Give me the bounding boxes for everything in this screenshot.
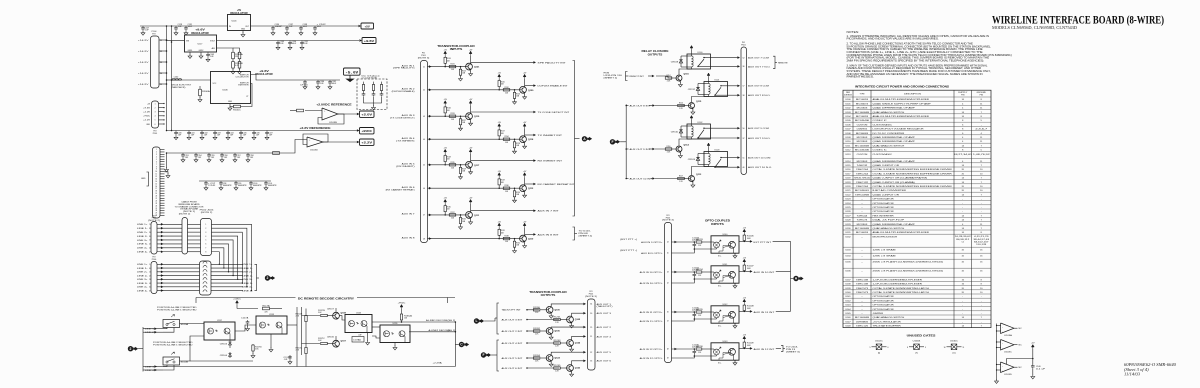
svg-text:+2.2V: +2.2V <box>361 141 372 145</box>
svg-text:L: L <box>475 319 477 323</box>
ground lower R row 1 <box>460 75 462 77</box>
svg-text:U141: U141 <box>845 296 851 298</box>
dashed box T100 ref network <box>357 79 387 110</box>
resistor lower R row 2 <box>514 90 516 93</box>
svg-text:ANALOG MULTIPLEXER/DEMULTIPLEX: ANALOG MULTIPLEXER/DEMULTIPLEXER <box>873 115 930 118</box>
wire relay contacts to connector K101 <box>728 85 739 87</box>
svg-text:QUAD ANALOG SWITCH: QUAD ANALOG SWITCH <box>873 316 905 319</box>
capacitor C136 <box>271 26 275 31</box>
capacitor C117AA <box>352 337 364 343</box>
svg-text:9: 9 <box>156 169 157 171</box>
bracket dc remote lines <box>138 348 143 350</box>
wire unused opamp bus <box>996 324 998 380</box>
supply relay K103 <box>707 143 710 148</box>
svg-text:U103A: U103A <box>1004 334 1013 337</box>
supply +5V collector row 3 <box>469 101 472 106</box>
ground C128 <box>174 31 178 35</box>
svg-text:AUX OUT 8 N.O.: AUX OUT 8 N.O. <box>748 94 771 97</box>
wire S100B to U133 lower <box>190 360 253 362</box>
capacitor C131 <box>184 26 188 31</box>
supply relay K100 <box>690 46 693 51</box>
svg-text:P/O: P/O <box>152 34 156 36</box>
svg-text:.1UF: .1UF <box>230 134 234 136</box>
pin stub J300 pin 16 <box>160 185 165 187</box>
svg-text:27: 27 <box>155 213 157 215</box>
pin stub J300 pin 3 <box>160 153 165 155</box>
svg-text:26: 26 <box>155 210 157 212</box>
svg-text:AUX OUT 7 N.O.: AUX OUT 7 N.O. <box>748 65 771 68</box>
svg-text:Q105: Q105 <box>575 319 581 321</box>
wire opto- row 4 <box>672 356 712 358</box>
svg-text:20: 20 <box>149 236 151 238</box>
svg-text:R1203: R1203 <box>554 340 561 342</box>
pin stub J300 pin 28 <box>160 214 165 216</box>
wire dc remote out 2 <box>409 331 455 333</box>
resistor base Q105 <box>554 318 561 320</box>
wire opto- row 1 <box>672 249 712 253</box>
offpage flag C <box>459 342 464 347</box>
svg-text:ANALOG MULTIPLEXER/DEMULTIPLEX: ANALOG MULTIPLEXER/DEMULTIPLEXER <box>873 231 930 234</box>
svg-text:PARENTHESES.: PARENTHESES. <box>847 76 875 79</box>
pin stub J300 pin 25 <box>160 207 165 209</box>
svg-text:QUAD DIFFERENTIAL OP AMP: QUAD DIFFERENTIAL OP AMP <box>873 223 916 226</box>
wire P103 pin 5 <box>159 119 165 121</box>
svg-text:WIRELINE INTERFACE BOARD (8-WI: WIRELINE INTERFACE BOARD (8-WIRE) <box>992 13 1164 27</box>
switching regulator U106 <box>211 72 251 104</box>
svg-text:U100: U100 <box>845 99 851 101</box>
svg-text:Q121: Q121 <box>474 67 480 69</box>
svg-text:DESIG: DESIG <box>844 94 852 96</box>
svg-text:R1235: R1235 <box>696 309 703 311</box>
svg-text:U102: U102 <box>845 108 851 110</box>
ground emitter Q105 <box>571 323 573 324</box>
capacitor C161 on ref line <box>194 153 198 158</box>
svg-text:+14.2V: +14.2V <box>138 73 149 75</box>
svg-text:R117A: R117A <box>262 305 270 308</box>
ground emitter row 6 <box>524 192 526 194</box>
wire U137 to U133 <box>235 325 256 331</box>
svg-text:AUX IN 12 INT: AUX IN 12 INT <box>754 348 776 351</box>
svg-text:.1UF: .1UF <box>178 134 182 136</box>
resistor base R row 8 <box>503 237 510 239</box>
wire output U141 <box>739 270 751 272</box>
switch S100B <box>163 357 180 365</box>
capacitor C160 on ref line <box>181 153 185 158</box>
svg-text:23: 23 <box>155 203 157 205</box>
wire input row 1 <box>428 66 466 68</box>
wire output row 2 <box>525 85 534 87</box>
svg-text:5: 5 <box>205 240 206 242</box>
resistor base R row 5 <box>449 164 456 166</box>
svg-text:5: 5 <box>156 159 157 161</box>
transistor Q113 <box>689 176 695 182</box>
arrow into +9.6V net label <box>359 39 362 42</box>
svg-text:52: 52 <box>743 57 745 59</box>
svg-text:DUAL J-K FLIP-FLOP: DUAL J-K FLIP-FLOP <box>873 219 906 222</box>
wire to Q107 <box>302 343 321 345</box>
pin stub J300 pin 18 <box>160 190 165 192</box>
supply relay K101 <box>707 73 710 78</box>
inductor L102 <box>172 79 182 81</box>
svg-text:49: 49 <box>667 358 669 360</box>
svg-text:JUMPER: JUMPER <box>873 313 884 315</box>
svg-text:P100: P100 <box>152 259 156 261</box>
bracket line group <box>255 264 257 290</box>
wire P104 pin 4 to +14V bus <box>159 72 167 74</box>
svg-text:PICOFARADS, AND INDUCTOR VALUE: PICOFARADS, AND INDUCTOR VALUES ARE IN M… <box>847 38 940 41</box>
wire +14V feed to +5V regulator <box>167 25 228 27</box>
optocoupler U143 <box>711 343 739 360</box>
pin stub J300 pin 4 <box>160 156 165 158</box>
wire input row 3 <box>428 115 466 117</box>
svg-text:LM78M05: LM78M05 <box>856 321 869 323</box>
svg-text:48: 48 <box>667 349 669 351</box>
svg-text:74HC32,74HC132: 74HC32,74HC132 <box>854 178 871 180</box>
voltage regulator U117 (+9.6V REGULATOR) <box>185 35 217 52</box>
resistor pullup R row 1 <box>444 56 446 58</box>
svg-text:(SPE FACILITY): (SPE FACILITY) <box>393 67 415 70</box>
capacitor C164 <box>372 92 376 97</box>
svg-text:U113: U113 <box>845 154 851 156</box>
svg-text:74HC32: 74HC32 <box>857 165 869 167</box>
svg-text:AUX OUT 9 N.O.: AUX OUT 9 N.O. <box>748 137 771 140</box>
svg-text:A-LINE1 DECODE: A-LINE1 DECODE <box>426 319 448 322</box>
svg-text:2: 2 <box>267 276 269 280</box>
svg-text:U128: U128 <box>845 220 851 222</box>
capacitor C163 <box>362 92 366 97</box>
svg-text:NC: NC <box>1019 328 1023 330</box>
svg-text:.1UF: .1UF <box>198 157 202 159</box>
capacitor C97 2.2UF <box>204 181 208 186</box>
wire P103 pin 2 <box>159 107 165 109</box>
svg-text:Q125: Q125 <box>575 343 581 345</box>
wire +2.2V ref input line <box>167 140 308 154</box>
svg-text:R134: R134 <box>504 136 508 138</box>
relay K102 <box>687 124 711 139</box>
svg-text:Q119: Q119 <box>474 116 480 118</box>
svg-text:Q100: Q100 <box>554 309 560 311</box>
svg-text:LINE 1+: LINE 1+ <box>137 264 149 266</box>
svg-text:THE ORANGE CONNECTOR IS CABLED: THE ORANGE CONNECTOR IS CABLED TO THE WI… <box>847 48 984 51</box>
wire U103D feedback <box>303 134 328 145</box>
svg-text:U121: U121 <box>845 190 851 192</box>
svg-text:CUSTOM: CUSTOM <box>857 154 868 156</box>
svg-text:30: 30 <box>590 313 592 315</box>
svg-text:11: 11 <box>156 174 158 176</box>
ground Q116 <box>679 81 681 83</box>
svg-text:3: 3 <box>156 154 157 156</box>
svg-text:OCTAL 3-STATE NONINVERTING LAT: OCTAL 3-STATE NONINVERTING LATCH <box>873 291 930 294</box>
svg-text:QUAD DIFFERENTIAL OP AMP: QUAD DIFFERENTIAL OP AMP <box>873 140 916 143</box>
wire collector Q125 to pin 31 <box>572 336 584 339</box>
svg-text:51: 51 <box>743 157 745 159</box>
ground U106 <box>229 104 231 107</box>
net label +9.6V <box>362 38 376 44</box>
svg-text:25: 25 <box>155 208 157 210</box>
wire U103D output <box>323 141 358 143</box>
connector P502 (oval) <box>182 218 188 255</box>
svg-text:AUX OUT 5: AUX OUT 5 <box>597 351 613 354</box>
svg-text:LINE 1+: LINE 1+ <box>137 224 149 226</box>
supply +5V pullup U143 <box>743 336 746 341</box>
supply +5V row 8 <box>498 223 501 228</box>
svg-text:OPTOISOLATOR: OPTOISOLATOR <box>873 304 895 307</box>
svg-text:AUX OUT 10 COM: AUX OUT 10 COM <box>748 157 771 160</box>
transistor Q107 <box>333 340 340 347</box>
svg-text:CUSTOM ASIC: CUSTOM ASIC <box>873 153 893 156</box>
svg-text:RELAY CLOSURE: RELAY CLOSURE <box>642 49 669 53</box>
offpage flag 2 (dc remote) <box>128 346 133 351</box>
ground U117 gnd2 <box>200 52 202 55</box>
bracket aux in 8 <box>573 227 575 240</box>
svg-text:(SH 2): (SH 2) <box>448 330 456 332</box>
svg-text:U130C: U130C <box>950 341 958 343</box>
svg-text:(SHEET 2): (SHEET 2) <box>579 235 593 237</box>
svg-text:AUX OUT 2 INT: AUX OUT 2 INT <box>502 330 524 333</box>
wire T100 bottom rail <box>364 97 382 103</box>
ground emitter row 2 <box>524 93 526 95</box>
bracket outputs group2 <box>497 340 499 371</box>
svg-text:P101: P101 <box>153 133 157 135</box>
pin stub J300 pin 14 <box>160 180 165 182</box>
pin stub J300 pin 24 <box>160 205 165 207</box>
svg-text:F: F <box>611 140 613 144</box>
svg-text:LINE 4+: LINE 4+ <box>137 248 149 250</box>
svg-text:CR106: CR106 <box>327 337 334 339</box>
svg-text:U102C: U102C <box>875 341 883 343</box>
svg-text:MC3303: MC3303 <box>857 141 869 143</box>
wire U103B feedback <box>318 114 344 124</box>
svg-text:45: 45 <box>423 165 425 167</box>
svg-text:R1233: R1233 <box>696 239 703 241</box>
connector P103 (small, mid-left) <box>152 101 159 128</box>
svg-text:MC3303: MC3303 <box>857 161 869 163</box>
svg-text:(NOTE 3): (NOTE 3) <box>585 296 597 298</box>
capacitor C165 on ref line <box>246 153 250 158</box>
svg-text:OCTAL 3-STATE NONINVERTING BUF: OCTAL 3-STATE NONINVERTING BUFFER/LINE D… <box>873 168 953 171</box>
transistor Q115 <box>689 103 695 109</box>
arrow into +9VDC label <box>357 129 360 132</box>
pin stub J300 pin 5 <box>160 158 165 160</box>
svg-text:MC3303: MC3303 <box>857 137 869 139</box>
wire input row 4 <box>428 138 520 140</box>
bracket inputs outputs <box>573 61 575 217</box>
svg-text:11: 11 <box>963 347 965 349</box>
svg-text:U111B: U111B <box>913 341 922 343</box>
svg-text:LINE 4+: LINE 4+ <box>242 287 254 289</box>
svg-text:ADJ: ADJ <box>212 47 215 50</box>
svg-text:U147: U147 <box>845 321 851 323</box>
ground emitter row 4 <box>524 143 526 145</box>
svg-text:R131: R131 <box>450 64 454 66</box>
resistor R117A <box>237 308 258 310</box>
wire crossover line 1 <box>212 224 252 290</box>
svg-text:19: 19 <box>155 193 157 195</box>
wire opto+ row 3 <box>672 311 696 313</box>
svg-text:NC: NC <box>1019 345 1023 347</box>
svg-text:8: 8 <box>156 166 157 168</box>
ground U117 gnd1 <box>189 52 191 55</box>
svg-text:MC145406: MC145406 <box>855 150 870 152</box>
resistor pullup R row 7 <box>444 204 446 206</box>
svg-text:6800PF: 6800PF <box>238 185 248 187</box>
capacitor C101 6800PF <box>264 181 268 186</box>
diode CR109 <box>697 154 699 165</box>
svg-text:R100A: R100A <box>202 90 211 93</box>
svg-text:74HC74: 74HC74 <box>857 220 869 222</box>
svg-text:U132: U132 <box>845 236 851 238</box>
svg-text:R1234: R1234 <box>696 269 703 271</box>
resistor lower R row 4 <box>514 139 516 142</box>
svg-text:R1201: R1201 <box>554 317 561 319</box>
resistor R161A2 <box>400 314 402 320</box>
svg-text:.1UF: .1UF <box>191 134 195 136</box>
wire opto+ row 2 <box>672 271 696 273</box>
ground J300 area <box>165 172 169 174</box>
wire coil to Q115 <box>692 95 709 103</box>
resistor pullup R row 5 <box>444 154 446 156</box>
transistor Q116 <box>676 75 682 81</box>
ground U140 emitter <box>734 253 736 254</box>
svg-text:13: 13 <box>155 178 157 180</box>
svg-text:Q124: Q124 <box>554 357 560 360</box>
resistor base Q106 <box>533 330 540 332</box>
svg-text:Q120: Q120 <box>528 90 534 92</box>
diode CR103 <box>229 340 231 348</box>
svg-text:AUX OUT 3: AUX OUT 3 <box>597 312 613 315</box>
svg-text:U106: U106 <box>845 124 851 126</box>
diode CR112 <box>697 84 699 95</box>
capacitor C1233 across inputs <box>693 350 697 355</box>
svg-text:OPTOISOLATOR: OPTOISOLATOR <box>873 198 895 201</box>
svg-text:TRI-STATE BUFFER: TRI-STATE BUFFER <box>873 325 902 328</box>
svg-text:MICROPROCESSOR: MICROPROCESSOR <box>873 236 898 238</box>
wire output row 5 <box>471 160 534 162</box>
svg-text:LINE 3+: LINE 3+ <box>242 279 254 281</box>
svg-text:AND MAY BE RE-ASSIGNED AS NECE: AND MAY BE RE-ASSIGNED AS NECESSARY. THE… <box>847 73 984 76</box>
supply +5V collector row 2 <box>523 74 526 79</box>
wire P104 pin 5 to +14V bus <box>159 83 167 85</box>
svg-text:AUX OUT 9 COM: AUX OUT 9 COM <box>748 127 769 130</box>
svg-text:AUX IN 10 OPTO-: AUX IN 10 OPTO- <box>640 282 663 285</box>
svg-text:256K x 8 FLASH (CLN6956/CLN695: 256K x 8 FLASH (CLN6956/CLN6958/CLN7543) <box>873 269 944 272</box>
transistor Q118 <box>520 136 527 143</box>
op-amp U103B <box>322 108 338 120</box>
svg-text:OUTPUTS: OUTPUTS <box>541 293 556 297</box>
svg-text:REGULATOR: REGULATOR <box>230 12 248 15</box>
supply +5V row 5 <box>444 149 447 154</box>
ground C131 <box>184 31 188 35</box>
svg-text:74HC138: 74HC138 <box>856 284 869 286</box>
svg-text:31: 31 <box>590 336 592 338</box>
ground R116B <box>232 68 234 70</box>
connector P501 opto <box>665 223 672 363</box>
svg-text:MC14053: MC14053 <box>856 99 869 101</box>
svg-text:U144: U144 <box>845 309 851 311</box>
supply +5V row 1 <box>444 51 447 56</box>
svg-text:HEX INVERTER: HEX INVERTER <box>873 215 895 217</box>
relay K100 <box>687 54 711 69</box>
diode CR110 <box>680 126 682 137</box>
svg-text:GND: GND <box>241 29 246 31</box>
pin stub J300 pin 15 <box>160 183 165 185</box>
svg-text:74HC244: 74HC244 <box>856 186 869 188</box>
svg-text:REGULATOR: REGULATOR <box>255 73 273 76</box>
svg-text:REMOT INT: REMOT INT <box>630 76 645 78</box>
wire crossover line 6 <box>212 244 229 272</box>
svg-text:U112: U112 <box>845 150 851 152</box>
svg-text:42: 42 <box>667 283 669 285</box>
resistor R110A mid <box>305 316 307 322</box>
svg-text:AUX IN 7 INT: AUX IN 7 INT <box>538 210 560 213</box>
wire base row out5 <box>527 357 539 359</box>
wire +9.6V rail <box>217 40 360 42</box>
wire output row 6 <box>525 183 534 185</box>
ground Q114 <box>679 152 681 154</box>
resistor base Q113 <box>678 177 685 179</box>
svg-text:6800PF: 6800PF <box>223 185 233 187</box>
svg-text:+9VDC: +9VDC <box>362 129 373 133</box>
svg-text:(TX INHIBIT): (TX INHIBIT) <box>396 140 415 142</box>
wire crossover line 8 <box>212 252 220 265</box>
svg-text:CR107: CR107 <box>327 309 334 311</box>
ground lower R row 8 <box>514 247 516 249</box>
capacitor C162 <box>313 26 317 31</box>
svg-text:R132: R132 <box>504 87 508 89</box>
svg-text:LINE 1-: LINE 1- <box>137 268 148 270</box>
resistor base Q125 <box>554 342 561 344</box>
wire dc remote left drop <box>195 298 197 304</box>
wire REMOT INT to Q116 <box>656 76 672 78</box>
svg-text:10: 10 <box>149 268 151 270</box>
svg-text:R136: R136 <box>504 185 508 187</box>
svg-text:U120: U120 <box>845 186 851 188</box>
svg-text:OPTOISOLATOR: OPTOISOLATOR <box>873 206 895 209</box>
capacitor C138 <box>299 26 303 31</box>
pin stub J300 pin 10 <box>160 170 165 172</box>
pin stub J300 pin 9 <box>160 168 165 170</box>
capacitor C139 <box>276 41 280 46</box>
svg-text:TRANSISTOR-COUPLED: TRANSISTOR-COUPLED <box>529 290 567 294</box>
svg-text:.1UF: .1UF <box>250 157 254 159</box>
capacitor C157 on +9VDC rail <box>265 131 269 136</box>
transistor Q119 <box>466 113 473 120</box>
wire output row 8 <box>525 233 534 235</box>
svg-text:GND: GND <box>141 178 146 180</box>
wire relay contacts to connector K103 <box>728 157 739 159</box>
svg-text:INPUTS: INPUTS <box>711 222 724 226</box>
svg-text:+5V DC REGULATOR: +5V DC REGULATOR <box>873 320 902 323</box>
pin stub J300 pin 13 <box>160 178 165 180</box>
supply +5V collector row 5 <box>469 149 472 154</box>
svg-text:CR103: CR103 <box>220 344 227 346</box>
svg-text:0.1 uF: 0.1 uF <box>1036 368 1047 370</box>
svg-text:CR104: CR104 <box>220 355 227 357</box>
svg-text:U139: U139 <box>845 288 851 290</box>
resistor R132 input <box>297 109 304 112</box>
ground unused opamp bus <box>995 379 999 383</box>
svg-text:AUX IN 10 INT: AUX IN 10 INT <box>754 271 776 274</box>
svg-text:+2.0VDC REFERENCE: +2.0VDC REFERENCE <box>316 102 352 106</box>
bracket REMOTE <box>773 56 775 68</box>
svg-text:46: 46 <box>423 188 425 190</box>
supply +5V row 3 <box>444 101 447 106</box>
svg-text:(NOTE 2): (NOTE 2) <box>179 214 191 216</box>
wire output row 1 <box>471 61 534 63</box>
optocoupler U140 <box>711 236 739 253</box>
wire dc remote out bus vertical <box>454 322 456 367</box>
svg-text:U127: U127 <box>845 215 851 217</box>
